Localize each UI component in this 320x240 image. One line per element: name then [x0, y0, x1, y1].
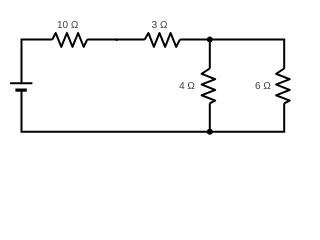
- node B: junction dot at bottom of 4-Ohm branch: [207, 129, 213, 135]
- battery V1: long (positive) plate: [10, 82, 32, 84]
- node: small solder dot on top wire: [115, 38, 118, 41]
- battery V1: short thick (negative) plate: [15, 88, 26, 91]
- svg-text:4 Ω: 4 Ω: [179, 81, 195, 92]
- wire: upper lead of 4-Ohm branch: [209, 40, 211, 69]
- svg-text:6 Ω: 6 Ω: [255, 81, 271, 92]
- svg-text:10 Ω: 10 Ω: [57, 20, 79, 31]
- resistor R4 6 Ohm (vertical zigzag): [276, 68, 290, 103]
- node A: junction dot at top of 4-Ohm branch: [207, 37, 213, 43]
- wire: right branch lower lead + bottom wire + left branch lower segment: [22, 90, 285, 132]
- resistor R2 3 Ohm (horizontal zigzag): [145, 33, 180, 47]
- wire: lower lead of 4-Ohm branch: [209, 103, 211, 131]
- wire: top wire between R1 and R2: [87, 39, 145, 41]
- svg-text:3 Ω: 3 Ω: [152, 20, 168, 31]
- wire: top wire from R2 across node A to top-right corner + right branch upper lead: [180, 40, 284, 69]
- resistor R3 4 Ohm (vertical zigzag): [202, 68, 216, 103]
- wire: left branch upper segment + top wire from left corner to R1: [22, 40, 53, 84]
- resistor R1 10 Ohm (horizontal zigzag): [52, 33, 87, 47]
